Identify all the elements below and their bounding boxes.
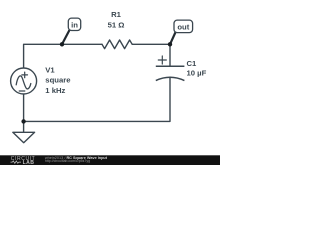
capacitor C1 curved plate — [156, 77, 185, 80]
node in junction dot — [60, 42, 64, 46]
voltage source V1 circle — [11, 68, 37, 94]
svg-text:out: out — [177, 23, 189, 32]
ground junction dot — [21, 119, 25, 123]
ground — [23, 121, 25, 132]
svg-text:C1: C1 — [187, 59, 198, 68]
wire top-left horizontal — [24, 44, 102, 68]
capacitor plus sign — [158, 56, 166, 64]
footer logo zigzag — [11, 161, 22, 163]
capacitor C1 top plate — [156, 65, 185, 67]
node out junction dot — [168, 42, 172, 46]
resistor R1 — [102, 40, 132, 49]
svg-text:V1: V1 — [45, 65, 55, 74]
out flag box — [174, 20, 193, 32]
V1 plus sign — [22, 72, 28, 78]
svg-text:http://circuitlab.com/c/p5s7yg: http://circuitlab.com/c/p5s7yg — [45, 159, 90, 163]
V1 minus sign — [19, 90, 25, 92]
V1 sine glyph — [16, 76, 31, 89]
out flag tail — [170, 32, 176, 44]
in flag tail — [62, 30, 70, 44]
svg-text:10 µF: 10 µF — [187, 68, 207, 77]
wire V1 bottom to ground node — [23, 94, 25, 121]
ground triangle — [13, 132, 35, 142]
svg-text:square: square — [45, 76, 71, 85]
wire bottom horizontal — [24, 78, 170, 122]
wire resistor to out node — [132, 44, 170, 66]
in flag box — [68, 18, 80, 30]
svg-text:1 kHz: 1 kHz — [45, 86, 65, 95]
svg-text:LAB: LAB — [23, 160, 35, 165]
svg-text:in: in — [71, 21, 78, 30]
svg-text:51 Ω: 51 Ω — [108, 21, 125, 30]
footer bar — [0, 155, 220, 165]
svg-text:R1: R1 — [111, 10, 122, 19]
